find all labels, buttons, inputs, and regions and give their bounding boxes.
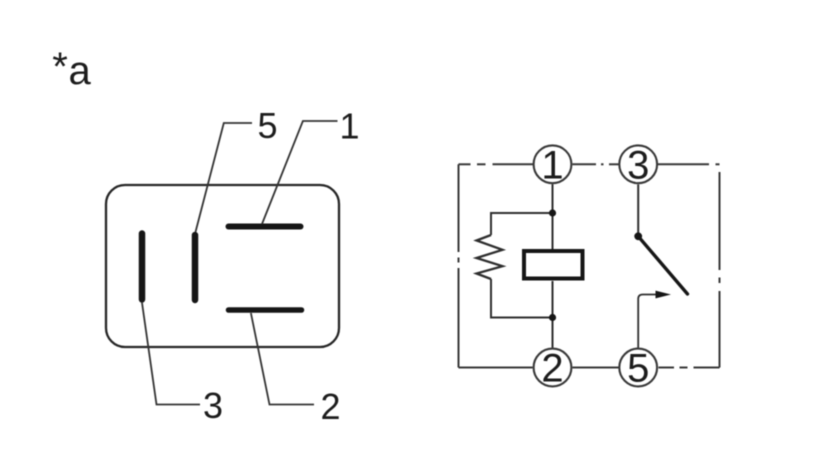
svg-text:*: * [52, 45, 68, 89]
svg-text:5: 5 [257, 105, 277, 146]
svg-text:2: 2 [320, 386, 340, 427]
svg-text:a: a [69, 49, 92, 93]
svg-text:3: 3 [203, 385, 223, 426]
svg-text:3: 3 [627, 143, 649, 187]
svg-text:1: 1 [541, 143, 563, 187]
svg-text:1: 1 [339, 106, 359, 147]
svg-text:2: 2 [541, 347, 563, 391]
svg-text:5: 5 [627, 347, 649, 391]
